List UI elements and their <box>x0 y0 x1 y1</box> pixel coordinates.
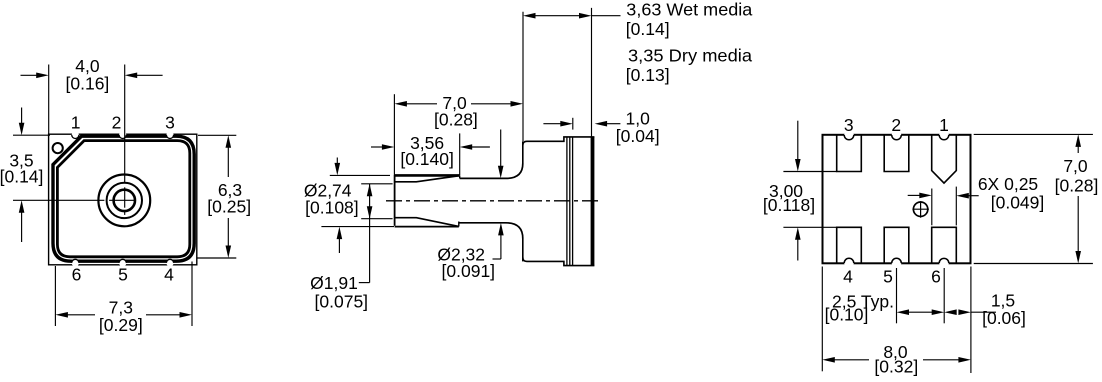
svg-text:3: 3 <box>165 112 175 132</box>
left view package inner outline (thin) <box>57 141 189 257</box>
right view pad 3 <box>837 135 862 172</box>
svg-text:[0.16]: [0.16] <box>66 73 110 93</box>
svg-text:6: 6 <box>72 264 82 284</box>
middle view port ridge steps <box>459 175 461 178</box>
middle view center line (dash-dot) <box>386 200 599 202</box>
svg-text:2: 2 <box>891 115 901 135</box>
svg-text:[0.14]: [0.14] <box>0 167 43 187</box>
middle view port tip face <box>394 175 396 226</box>
dimension 3,56 (middle, tip to ridge) <box>459 133 461 175</box>
svg-text:[0.06]: [0.06] <box>982 308 1026 328</box>
svg-text:[0.13]: [0.13] <box>626 65 670 85</box>
svg-text:[0.29]: [0.29] <box>99 315 143 335</box>
dimension 6X 0,25 (right view pad width) <box>931 189 933 226</box>
svg-text:[0.28]: [0.28] <box>434 109 478 129</box>
middle view fillets into body <box>506 164 523 179</box>
dimension 1,5 (right view pad to edge) <box>944 309 957 315</box>
left view package body outline (thick, chamfered TL corner) <box>53 136 194 261</box>
dimension 3,5 (left view left side) <box>13 134 50 136</box>
svg-text:6: 6 <box>931 266 941 286</box>
dimension 1,0 (middle, cap thickness) <box>572 118 574 130</box>
middle view body outline <box>522 141 524 163</box>
right view theta/position symbol <box>913 202 927 216</box>
left view edge notches (bottom) <box>72 259 79 266</box>
svg-text:[0.075]: [0.075] <box>315 291 369 311</box>
svg-text:4: 4 <box>843 266 853 286</box>
middle view cap end face (thick) <box>591 137 595 266</box>
right view edge notches (bottom) <box>844 258 854 268</box>
svg-text:3,63 Wet media: 3,63 Wet media <box>626 0 752 20</box>
right view package outline <box>823 135 971 263</box>
middle view port cone bottom edge <box>395 218 459 227</box>
middle view port cone top edge <box>395 176 460 182</box>
middle view port top silhouette (thick) <box>395 174 460 177</box>
left view vertical center line <box>124 65 126 184</box>
left view lead-frame square <box>49 134 197 265</box>
svg-text:7,0: 7,0 <box>1063 156 1088 176</box>
right view pad 2 <box>884 135 909 172</box>
dimension 3,63 / 3,35 (middle, body height) <box>591 8 593 137</box>
dimension 7,0 (middle, port length) <box>393 94 395 175</box>
svg-text:6X 0,25: 6X 0,25 <box>978 174 1038 194</box>
left view edge notches (top) <box>72 131 79 138</box>
dimension O1,91 (middle, tip diameter) <box>361 183 392 185</box>
svg-text:5: 5 <box>883 266 893 286</box>
left view port circles (concentric) <box>98 175 150 227</box>
right view pad 5 <box>884 227 909 263</box>
dimension 4,0 (left view top) <box>48 65 50 135</box>
dimension 2,5 Typ. (right view pad pitch) <box>896 268 898 323</box>
svg-text:[0.118]: [0.118] <box>763 195 815 215</box>
middle view port bottom silhouette <box>395 226 459 228</box>
svg-text:[0.32]: [0.32] <box>874 356 918 376</box>
svg-text:2: 2 <box>112 112 122 132</box>
dimension 3,00 (right view left side) <box>783 171 836 173</box>
svg-text:4: 4 <box>164 264 174 284</box>
dimension O2,74 (middle, barb diameter) <box>330 174 390 176</box>
dimension 7,0 (right view right side) <box>974 133 1093 135</box>
dimension 8,0 (right view bottom) <box>821 267 823 372</box>
right view edge notches (top) <box>844 130 854 140</box>
dimension 6,3 (left view right side) <box>198 134 236 136</box>
svg-text:[0.049]: [0.049] <box>991 192 1045 212</box>
svg-text:[0.25]: [0.25] <box>207 196 251 216</box>
middle view O2,74 bottom tick extension <box>321 226 394 228</box>
svg-text:Ø1,91: Ø1,91 <box>310 273 358 293</box>
middle view tube outline <box>460 177 506 179</box>
right view pad 6 <box>932 227 957 263</box>
right view pad 1 (pentagon) <box>932 135 957 183</box>
svg-text:[0.091]: [0.091] <box>442 261 496 281</box>
right view pad 4 <box>837 227 862 263</box>
middle view cap layer lines <box>566 137 568 266</box>
left view horizontal center line <box>13 199 104 201</box>
left view pin-1 indicator circle <box>53 143 63 153</box>
svg-text:1: 1 <box>939 115 949 135</box>
svg-text:3,35 Dry media: 3,35 Dry media <box>628 46 752 66</box>
svg-text:3: 3 <box>844 115 854 135</box>
svg-text:[0.10]: [0.10] <box>825 304 869 324</box>
svg-text:5: 5 <box>118 264 128 284</box>
svg-text:[0.28]: [0.28] <box>1055 175 1099 195</box>
dimension O2,32 (middle, tube diameter) <box>500 130 502 167</box>
svg-text:[0.14]: [0.14] <box>626 19 670 39</box>
svg-text:[0.108]: [0.108] <box>305 197 359 217</box>
svg-text:[0.140]: [0.140] <box>400 149 454 169</box>
svg-text:1: 1 <box>71 112 81 132</box>
dimension 7,3 (left view bottom) <box>54 266 56 326</box>
svg-text:[0.04]: [0.04] <box>616 126 660 146</box>
